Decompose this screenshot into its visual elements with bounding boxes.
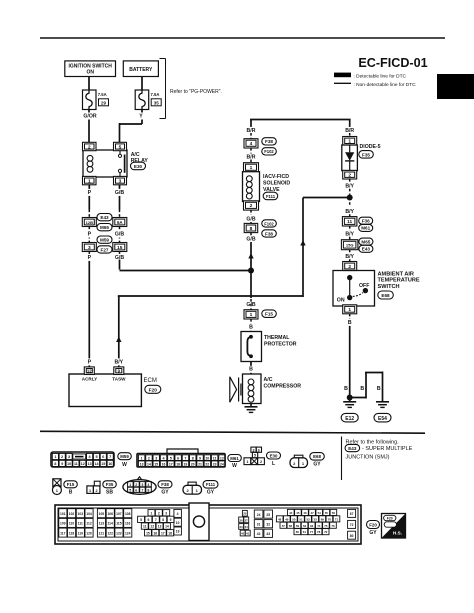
svg-text:101: 101 <box>60 512 66 516</box>
svg-text:71: 71 <box>335 517 339 521</box>
svg-text:121: 121 <box>99 531 105 535</box>
svg-text:8: 8 <box>162 518 164 522</box>
svg-text:2: 2 <box>348 173 351 179</box>
svg-text:EC-FICD-01: EC-FICD-01 <box>358 56 427 70</box>
svg-text:PROTECTOR: PROTECTOR <box>264 341 297 347</box>
svg-text:2: 2 <box>88 144 91 150</box>
svg-text:SB: SB <box>106 490 113 496</box>
svg-text:E43: E43 <box>100 215 109 220</box>
svg-text:- SUPER MULTIPLE: - SUPER MULTIPLE <box>362 446 413 452</box>
svg-text:1: 1 <box>150 511 152 515</box>
svg-text:5: 5 <box>95 455 97 459</box>
svg-text:119: 119 <box>78 531 83 535</box>
svg-text:13: 13 <box>140 462 144 466</box>
svg-text:P: P <box>88 359 92 365</box>
svg-text:35: 35 <box>154 100 159 105</box>
svg-text:115: 115 <box>116 522 121 526</box>
svg-text:1: 1 <box>250 312 253 318</box>
svg-text:M61: M61 <box>361 226 370 231</box>
svg-text:8: 8 <box>54 462 56 466</box>
svg-text:1: 1 <box>348 307 351 313</box>
svg-text:B: B <box>360 386 364 392</box>
svg-text:9: 9 <box>199 456 201 460</box>
svg-text:2: 2 <box>348 264 351 270</box>
svg-text:B/Y: B/Y <box>345 184 354 190</box>
svg-text:15: 15 <box>146 531 150 535</box>
svg-text:12: 12 <box>150 525 154 529</box>
svg-text:E68: E68 <box>313 454 321 459</box>
svg-text:50: 50 <box>292 517 296 521</box>
svg-text:1: 1 <box>88 178 91 184</box>
svg-text:109: 109 <box>60 522 66 526</box>
svg-text:3: 3 <box>88 245 91 251</box>
svg-text:20: 20 <box>243 512 247 516</box>
svg-text:15: 15 <box>101 462 105 466</box>
svg-text:JUNCTION (SMJ): JUNCTION (SMJ) <box>346 455 390 461</box>
svg-text:16: 16 <box>108 462 112 466</box>
svg-text:51: 51 <box>299 517 303 521</box>
svg-text:10: 10 <box>176 521 180 525</box>
svg-text:118: 118 <box>69 531 74 535</box>
svg-text:17: 17 <box>169 462 173 466</box>
svg-text:9: 9 <box>170 518 172 522</box>
svg-text:33: 33 <box>240 525 244 529</box>
svg-text:60: 60 <box>296 530 300 534</box>
svg-text:F102: F102 <box>264 149 274 154</box>
svg-text:8: 8 <box>250 226 253 232</box>
svg-text:29: 29 <box>101 100 106 105</box>
svg-text:11: 11 <box>213 456 217 460</box>
svg-text:AMBIENT AIR: AMBIENT AIR <box>378 271 414 277</box>
svg-text:COMPRESSOR: COMPRESSOR <box>264 383 302 389</box>
svg-text:W: W <box>122 462 127 468</box>
svg-text:10: 10 <box>67 462 71 466</box>
svg-text:20: 20 <box>191 462 195 466</box>
svg-text:9: 9 <box>61 462 63 466</box>
svg-text:24: 24 <box>257 513 261 517</box>
svg-text:31: 31 <box>257 522 261 526</box>
svg-text:F38: F38 <box>265 139 273 144</box>
svg-text:53: 53 <box>314 517 318 521</box>
svg-text:63: 63 <box>310 524 314 528</box>
svg-text:Refer to "PG-POWER".: Refer to "PG-POWER". <box>170 89 222 95</box>
svg-text:49: 49 <box>285 517 289 521</box>
svg-text:45: 45 <box>296 511 300 515</box>
svg-text:76: 76 <box>331 524 335 528</box>
svg-text:18: 18 <box>176 462 180 466</box>
svg-text:40: 40 <box>241 532 245 536</box>
svg-text:E12: E12 <box>345 416 354 422</box>
svg-text:7: 7 <box>109 455 111 459</box>
svg-text:3: 3 <box>155 456 157 460</box>
svg-text:111: 111 <box>78 522 83 526</box>
svg-text:GY: GY <box>313 462 321 468</box>
svg-text:4: 4 <box>177 512 179 516</box>
svg-text:123: 123 <box>116 531 122 535</box>
svg-text:55: 55 <box>325 511 329 515</box>
svg-text:SWITCH: SWITCH <box>378 284 400 290</box>
svg-text:26: 26 <box>240 518 244 522</box>
svg-text:14: 14 <box>165 525 169 529</box>
svg-text:108: 108 <box>125 512 131 516</box>
svg-text:61: 61 <box>303 530 307 534</box>
svg-text:ACRLY: ACRLY <box>82 377 97 382</box>
svg-text:H.S.: H.S. <box>393 531 402 536</box>
svg-text:M59: M59 <box>100 238 109 243</box>
svg-text:11: 11 <box>143 525 147 529</box>
svg-text:2: 2 <box>148 456 150 460</box>
svg-text:110: 110 <box>69 522 74 526</box>
svg-text:F111: F111 <box>206 482 216 487</box>
svg-text:72: 72 <box>350 523 354 527</box>
svg-text:80: 80 <box>350 534 354 538</box>
svg-text:G/B: G/B <box>115 232 124 238</box>
svg-text:62: 62 <box>303 524 307 528</box>
svg-text:27: 27 <box>245 518 249 522</box>
svg-text:M61: M61 <box>230 456 239 461</box>
svg-text:3: 3 <box>119 178 122 184</box>
svg-text:4: 4 <box>147 483 149 487</box>
svg-text:5: 5 <box>170 456 172 460</box>
svg-text:6: 6 <box>177 456 179 460</box>
svg-text:F102: F102 <box>264 221 274 226</box>
svg-text:114: 114 <box>108 522 113 526</box>
svg-text:42: 42 <box>257 532 261 536</box>
svg-text:69: 69 <box>321 517 325 521</box>
svg-text:113: 113 <box>99 522 104 526</box>
svg-text:1: 1 <box>141 456 143 460</box>
svg-text:3: 3 <box>141 483 143 487</box>
svg-text:22: 22 <box>205 462 209 466</box>
svg-text:47: 47 <box>310 511 314 515</box>
svg-text:7: 7 <box>155 518 157 522</box>
svg-text:18: 18 <box>168 531 172 535</box>
svg-text:103: 103 <box>78 512 84 516</box>
svg-text:3: 3 <box>165 511 167 515</box>
svg-text:F15: F15 <box>67 482 75 487</box>
svg-text:B: B <box>69 490 73 496</box>
svg-text:OFF: OFF <box>359 283 369 289</box>
svg-text:3: 3 <box>68 455 70 459</box>
svg-text:6A: 6A <box>117 220 123 225</box>
svg-text:70: 70 <box>328 517 332 521</box>
svg-text:IACV-FICD: IACV-FICD <box>263 174 289 180</box>
svg-text:2: 2 <box>96 489 98 493</box>
svg-text:106: 106 <box>107 512 113 516</box>
svg-text:B/Y: B/Y <box>114 359 123 365</box>
svg-text:1: 1 <box>246 460 248 464</box>
svg-text:A/C: A/C <box>264 377 273 383</box>
svg-text:7: 7 <box>141 488 143 492</box>
svg-text:GY: GY <box>369 530 377 536</box>
svg-text:: Detectable line for DTC: : Detectable line for DTC <box>354 74 407 80</box>
svg-text:107: 107 <box>116 512 122 516</box>
svg-text:F38: F38 <box>265 231 273 236</box>
svg-text:F35: F35 <box>362 152 370 157</box>
svg-text:ON: ON <box>86 70 94 76</box>
svg-text:23: 23 <box>213 462 217 466</box>
svg-text:G/OR: G/OR <box>83 113 97 119</box>
svg-text:1: 1 <box>250 165 253 171</box>
svg-text:54: 54 <box>318 511 322 515</box>
svg-text:24: 24 <box>220 462 224 466</box>
svg-text:F15: F15 <box>265 312 273 317</box>
svg-text:M65: M65 <box>361 239 370 244</box>
svg-text:46: 46 <box>303 511 307 515</box>
svg-text:102: 102 <box>69 512 75 516</box>
svg-text:M59: M59 <box>120 454 129 459</box>
svg-text:13: 13 <box>88 462 92 466</box>
svg-text:10: 10 <box>205 456 209 460</box>
svg-text:12: 12 <box>81 462 85 466</box>
svg-text:11: 11 <box>74 462 78 466</box>
svg-text:57: 57 <box>282 524 286 528</box>
svg-text:25: 25 <box>266 513 270 517</box>
svg-text:21: 21 <box>198 462 202 466</box>
svg-text:8: 8 <box>192 456 194 460</box>
svg-text:G/B: G/B <box>246 237 255 243</box>
svg-text:E43: E43 <box>348 446 357 451</box>
svg-text:E68: E68 <box>381 293 390 298</box>
svg-text:F20: F20 <box>387 516 393 520</box>
svg-text:2: 2 <box>260 460 262 464</box>
svg-text:124: 124 <box>125 531 131 535</box>
svg-text:GY: GY <box>161 490 169 496</box>
svg-text:L: L <box>272 461 275 467</box>
svg-text:GY: GY <box>207 490 215 496</box>
svg-text:12: 12 <box>220 456 224 460</box>
svg-text:48: 48 <box>278 517 282 521</box>
svg-text:F111: F111 <box>266 194 276 199</box>
svg-text:1: 1 <box>129 483 131 487</box>
svg-text:F35: F35 <box>106 482 114 487</box>
svg-text:12: 12 <box>87 369 92 374</box>
svg-text:6: 6 <box>147 518 149 522</box>
svg-text:13: 13 <box>158 525 162 529</box>
svg-text:19: 19 <box>176 530 180 534</box>
svg-text:P: P <box>88 190 92 196</box>
svg-text:11: 11 <box>347 219 352 225</box>
svg-text:Y: Y <box>139 113 143 119</box>
svg-text:77: 77 <box>310 530 314 534</box>
svg-text:12B: 12B <box>86 220 93 225</box>
svg-text:112: 112 <box>86 522 91 526</box>
svg-text:3: 3 <box>253 448 255 452</box>
svg-text:B/R: B/R <box>247 128 256 134</box>
svg-text:120: 120 <box>86 531 92 535</box>
svg-text:78: 78 <box>317 530 321 534</box>
svg-text:116: 116 <box>125 522 130 526</box>
svg-text:2: 2 <box>250 203 253 209</box>
svg-text:15: 15 <box>117 245 123 251</box>
svg-text:32: 32 <box>266 522 270 526</box>
svg-text:5: 5 <box>119 144 122 150</box>
svg-text:6: 6 <box>102 455 104 459</box>
svg-text:TEMPERATURE: TEMPERATURE <box>378 278 420 284</box>
svg-text:6: 6 <box>135 488 137 492</box>
svg-text:SOLENOID: SOLENOID <box>263 180 290 186</box>
svg-text:7.5A: 7.5A <box>151 92 160 97</box>
svg-text:7: 7 <box>184 456 186 460</box>
svg-text:15G: 15G <box>346 243 354 248</box>
svg-text:F20: F20 <box>149 387 158 393</box>
svg-text:15: 15 <box>154 462 158 466</box>
svg-text:2: 2 <box>158 511 160 515</box>
svg-text:2: 2 <box>61 455 63 459</box>
svg-text:59: 59 <box>296 524 300 528</box>
svg-text:ON: ON <box>337 297 345 303</box>
svg-text:G/B: G/B <box>115 190 124 196</box>
svg-text:DIODE-5: DIODE-5 <box>360 144 381 150</box>
svg-text:F27: F27 <box>101 247 109 252</box>
svg-text:1: 1 <box>89 489 91 493</box>
svg-text:P: P <box>88 232 92 238</box>
svg-text:B: B <box>344 386 348 392</box>
svg-text:2: 2 <box>135 483 137 487</box>
svg-text:BATTERY: BATTERY <box>129 67 153 73</box>
svg-text:G/B: G/B <box>246 217 255 223</box>
svg-text:P: P <box>88 255 92 261</box>
svg-text:: Non-detectable line for DTC: : Non-detectable line for DTC <box>354 82 417 88</box>
svg-text:117: 117 <box>60 531 65 535</box>
svg-text:104: 104 <box>86 512 92 516</box>
svg-text:16: 16 <box>162 462 166 466</box>
svg-text:105: 105 <box>99 512 105 516</box>
svg-text:56: 56 <box>332 511 336 515</box>
svg-text:67: 67 <box>350 512 354 516</box>
svg-text:E43: E43 <box>362 247 371 252</box>
svg-text:5: 5 <box>254 454 256 458</box>
svg-text:F38: F38 <box>161 482 169 487</box>
svg-text:1: 1 <box>348 139 351 145</box>
svg-text:E54: E54 <box>378 416 387 422</box>
svg-text:THERMAL: THERMAL <box>264 335 290 341</box>
svg-text:44: 44 <box>289 511 293 515</box>
svg-text:B: B <box>348 320 352 326</box>
svg-text:B: B <box>249 367 253 373</box>
svg-text:E30: E30 <box>134 164 143 169</box>
svg-text:16: 16 <box>153 531 157 535</box>
svg-text:75: 75 <box>324 524 328 528</box>
svg-text:43: 43 <box>266 532 270 536</box>
svg-text:14: 14 <box>95 462 99 466</box>
svg-text:6: 6 <box>258 448 260 452</box>
svg-text:34: 34 <box>245 525 249 529</box>
svg-text:58: 58 <box>289 524 293 528</box>
svg-text:41: 41 <box>246 532 250 536</box>
svg-text:52: 52 <box>306 517 310 521</box>
svg-text:F36: F36 <box>362 219 370 224</box>
svg-text:5: 5 <box>140 518 142 522</box>
svg-text:E30: E30 <box>270 453 278 458</box>
svg-text:8: 8 <box>147 488 149 492</box>
svg-text:74: 74 <box>317 524 321 528</box>
svg-text:4: 4 <box>250 141 253 147</box>
svg-text:1: 1 <box>54 455 56 459</box>
svg-text:W: W <box>232 463 237 469</box>
svg-text:B: B <box>249 325 253 331</box>
svg-text:122: 122 <box>107 531 113 535</box>
svg-text:4: 4 <box>163 456 165 460</box>
svg-text:5: 5 <box>129 488 131 492</box>
svg-text:14: 14 <box>147 462 151 466</box>
svg-text:TASW: TASW <box>112 377 126 382</box>
svg-text:19: 19 <box>184 462 188 466</box>
svg-text:B: B <box>377 386 381 392</box>
svg-text:ECM: ECM <box>144 378 157 384</box>
svg-text:79: 79 <box>324 530 328 534</box>
svg-text:17: 17 <box>161 531 165 535</box>
svg-text:B/R: B/R <box>345 128 354 134</box>
svg-text:7.5A: 7.5A <box>98 92 107 97</box>
svg-text:F20: F20 <box>369 523 377 528</box>
svg-text:M65: M65 <box>100 225 109 230</box>
